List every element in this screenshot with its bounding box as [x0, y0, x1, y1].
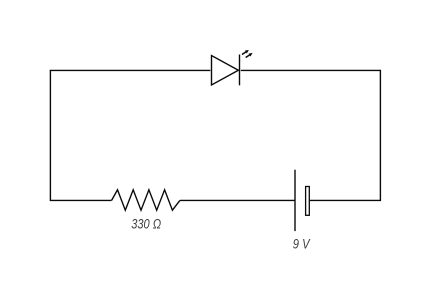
battery B1 negative plate (long thin line)	[294, 170, 296, 231]
svg-text:9 V: 9 V	[293, 236, 311, 252]
resistor R (zigzag)	[112, 190, 180, 210]
LED D1 cathode bar	[239, 55, 241, 86]
wire top-left loop: LED anode around to resistor left	[50, 70, 210, 200]
wire top-right loop: LED cathode around to battery plus bar	[241, 70, 381, 200]
LED D1 triangle (anode)	[212, 56, 239, 86]
svg-text:330 Ω: 330 Ω	[131, 217, 161, 233]
wire bottom-middle: battery long plate to resistor right	[180, 199, 295, 201]
battery B1 positive plate (short thick bar)	[306, 187, 310, 216]
LED light-emission arrow 1	[242, 50, 249, 55]
LED light-emission arrow 2	[246, 53, 253, 58]
